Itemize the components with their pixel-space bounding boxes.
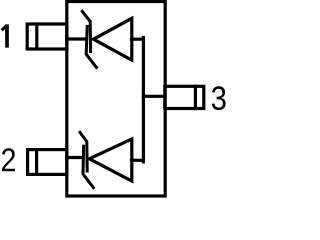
pin 3 lead: [165, 86, 204, 108]
pin 2 label: [2, 148, 15, 171]
wire bus to pin 3: [143, 95, 164, 98]
wire D2 anode jog: [132, 159, 144, 162]
pin 1 label: [2, 24, 7, 47]
package outline: [67, 2, 165, 197]
wire pin1 to D1 cathode: [67, 37, 87, 40]
pin 1 lead: [27, 24, 67, 49]
zener diode D2: [80, 132, 132, 187]
zener diode D1: [82, 11, 132, 67]
wire pin2 to D2 cathode: [67, 156, 83, 159]
pin 2 lead: [28, 150, 67, 175]
pin 3 label: [212, 86, 226, 110]
wire common anode bus: [142, 38, 145, 162]
wire D1 anode jog: [132, 38, 144, 41]
